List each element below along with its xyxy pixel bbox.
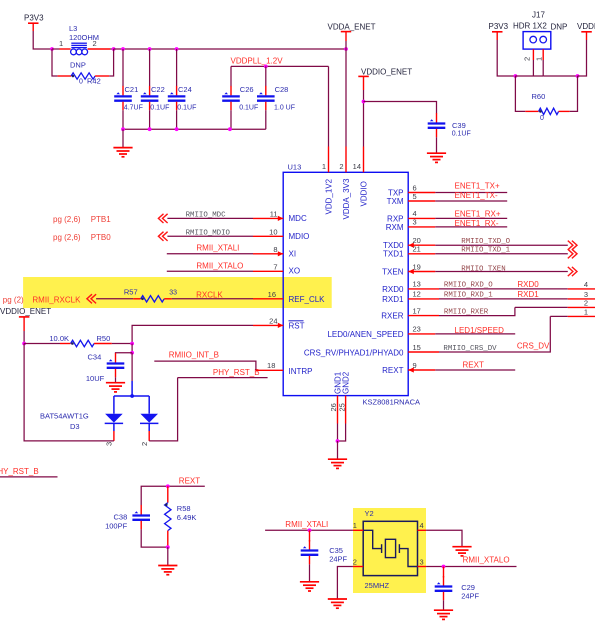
pin 6 stub [408, 192, 435, 194]
svg-text:VDDIO_ENET: VDDIO_ENET [361, 68, 412, 77]
wire row 1 (CRS_DV to edge) [550, 315, 567, 317]
svg-text:1.0 UF: 1.0 UF [274, 104, 295, 111]
svg-text:R58: R58 [177, 504, 191, 513]
svg-text:10: 10 [269, 227, 277, 236]
wire RMIIO_RXD_0 [439, 288, 568, 290]
svg-text:2: 2 [140, 442, 149, 446]
wire VDDIO_ENET down [23, 331, 25, 344]
wire RST net [132, 325, 253, 343]
svg-text:RMII_RXCLK: RMII_RXCLK [32, 295, 81, 304]
svg-text:GND2: GND2 [342, 371, 351, 394]
svg-text:23: 23 [413, 325, 421, 334]
svg-text:RXD1: RXD1 [517, 290, 539, 299]
wire to IC ground [337, 441, 339, 459]
wire R60 right riser [570, 76, 578, 111]
junction node C34 tap [130, 351, 134, 355]
off-page connector RMII_RXCLK [87, 294, 96, 303]
capacitor C26 0.1UF [222, 85, 258, 111]
wire J17 pin1 down [542, 60, 544, 76]
svg-text:REXT: REXT [179, 476, 200, 485]
svg-text:CRS_DV: CRS_DV [517, 342, 550, 351]
resistor R60 0 ohm [525, 92, 569, 122]
wire DNP loop right [109, 49, 113, 76]
junction node L3 pin2 [112, 47, 116, 51]
wire RMIIO_TXEN [435, 271, 568, 273]
pin 18 stub [256, 369, 283, 371]
wire RMIIO_TXD_1 [435, 253, 568, 255]
svg-text:INTRP: INTRP [289, 367, 313, 376]
highlight band REF_CLK net [23, 277, 332, 308]
capacitor C29 24PF [435, 576, 480, 601]
svg-text:pg (2,6): pg (2,6) [53, 233, 81, 242]
svg-text:3: 3 [420, 558, 424, 567]
pin 15 stub [408, 351, 439, 353]
svg-text:2: 2 [339, 162, 343, 171]
wire J17 pin2 row [515, 75, 543, 77]
svg-text:RMII_XTALI: RMII_XTALI [285, 520, 328, 529]
pin 4 stub (Y2) [418, 529, 427, 531]
pin 17 stub [408, 315, 439, 317]
junction node VDDIO C39 tap [362, 100, 366, 104]
wire GND2 down [338, 424, 346, 442]
wire ENET1_TX- [435, 200, 507, 202]
svg-text:C22: C22 [151, 85, 165, 94]
wire C29 branch [443, 567, 445, 578]
wire J17 pin2 down [532, 60, 534, 76]
wire VDDI to junction [578, 40, 587, 76]
svg-text:MDIO: MDIO [289, 232, 310, 241]
svg-text:VDDA_ENET: VDDA_ENET [328, 23, 376, 32]
junction node VDDA rail [344, 47, 348, 51]
wire C28 bottom [265, 110, 267, 129]
svg-text:U13: U13 [288, 163, 302, 172]
pin 19 stub [408, 269, 435, 274]
junction node gnd rail C26 [228, 127, 232, 131]
svg-text:RXD1: RXD1 [382, 295, 404, 304]
svg-text:4: 4 [584, 280, 588, 289]
svg-text:MDC: MDC [289, 214, 307, 223]
wire RMIIO_INT_B [154, 361, 256, 370]
svg-text:R50: R50 [97, 334, 111, 343]
wire to ground (REXT) [167, 547, 169, 565]
wire RMIIO_MDC [167, 217, 253, 219]
pin 5 stub [408, 200, 435, 202]
svg-text:J17: J17 [532, 11, 545, 20]
resistor R42 (DNP 0 ohm) [58, 61, 110, 86]
svg-text:VDDIO_ENET: VDDIO_ENET [0, 307, 51, 316]
capacitor C38 100PF [105, 505, 150, 531]
svg-text:21: 21 [413, 245, 421, 254]
pin 11 stub [253, 216, 283, 221]
resistor R50 10.0K [49, 334, 111, 347]
pin GND2 stub [345, 396, 347, 424]
svg-text:2: 2 [584, 299, 588, 308]
pin 2 stub [345, 147, 347, 173]
svg-text:L3: L3 [69, 24, 77, 33]
junction node C24 top [175, 47, 179, 51]
svg-text:PHY_RST_B: PHY_RST_B [213, 368, 260, 377]
ground (C29) [434, 610, 453, 619]
svg-text:ENET1_TX-: ENET1_TX- [455, 191, 498, 200]
wire C28 branch [265, 66, 267, 86]
wire RXCLK right [172, 298, 253, 300]
svg-text:2: 2 [353, 558, 357, 567]
svg-text:BAT54AWT1G: BAT54AWT1G [40, 412, 89, 421]
svg-text:3: 3 [413, 218, 417, 227]
svg-text:24: 24 [269, 316, 277, 325]
svg-text:RMII_XTALI: RMII_XTALI [196, 243, 239, 252]
capacitor C28 1.0UF [257, 85, 295, 111]
wire RST to C34 tap [131, 344, 133, 353]
svg-text:1: 1 [535, 57, 544, 61]
junction node R50 left [22, 342, 26, 346]
wire D3 anode2 to PHY_RST_B [149, 378, 177, 441]
wire PHY_RST_B (bottom left) [0, 476, 58, 478]
svg-text:0.1UF: 0.1UF [150, 104, 169, 111]
pin 8 stub [253, 251, 283, 256]
ground (IC GND pins) [328, 459, 347, 468]
wire RMIIO_CRS_DV [439, 316, 550, 352]
svg-text:XI: XI [289, 249, 297, 258]
wire L3 pin2 to junction [110, 48, 114, 50]
svg-text:7: 7 [273, 262, 277, 271]
svg-text:120OHM: 120OHM [69, 33, 99, 42]
svg-text:C38: C38 [114, 513, 128, 522]
op-amp U13 KSZ8081RNACA (PHY IC body) [283, 163, 420, 407]
wire C29 to ground [443, 600, 445, 610]
svg-text:C34: C34 [88, 353, 102, 362]
wire VDD_1V2 riser to pin 1 [328, 66, 330, 146]
inductor L3 (ferrite bead 120OHM) [52, 24, 110, 55]
wire DNP loop left [52, 49, 58, 76]
svg-text:DNP: DNP [70, 61, 86, 70]
junction node J17 pin2 / R60 [514, 74, 518, 78]
pin 23 stub [408, 333, 435, 335]
wire R50 right [112, 343, 132, 345]
pin 14 stub [363, 147, 365, 173]
svg-text:TXEN: TXEN [382, 267, 404, 276]
wire RMII_XTALO [167, 270, 253, 272]
wire C24 bottom [176, 110, 178, 129]
pin 2 stub (Y2) [353, 566, 363, 568]
svg-text:VDDPLL_1.2V: VDDPLL_1.2V [231, 57, 284, 66]
ground (REXT network) [158, 566, 177, 575]
svg-text:17: 17 [413, 306, 421, 315]
junction node GND pins [336, 439, 340, 443]
connector J17 HDR 1X2 [513, 11, 567, 62]
crystal Y2 25MHZ [363, 509, 417, 590]
svg-text:C26: C26 [240, 85, 254, 94]
svg-text:24PF: 24PF [329, 555, 347, 564]
svg-text:R42: R42 [87, 77, 101, 86]
svg-text:RMII_XTALO: RMII_XTALO [196, 261, 243, 270]
svg-text:REF_CLK: REF_CLK [289, 295, 326, 304]
svg-text:C24: C24 [178, 85, 192, 94]
svg-text:12: 12 [413, 290, 421, 299]
wire C35 to ground [309, 564, 311, 581]
svg-text:1: 1 [584, 308, 588, 317]
junction node C21 top [121, 47, 125, 51]
svg-text:pg (2): pg (2) [3, 295, 24, 304]
svg-text:DNP: DNP [551, 22, 568, 31]
svg-text:15: 15 [413, 343, 421, 352]
junction node gnd rail C21 [121, 127, 125, 131]
svg-text:10UF: 10UF [86, 374, 105, 383]
svg-text:1: 1 [322, 162, 326, 171]
svg-text:ENET1_TX+: ENET1_TX+ [455, 181, 500, 190]
svg-text:VDDA_3V3: VDDA_3V3 [342, 178, 351, 219]
svg-text:CRS_RV/PHYAD1/PHYAD0: CRS_RV/PHYAD1/PHYAD0 [304, 349, 404, 358]
svg-text:0: 0 [540, 115, 544, 122]
capacitor C35 24PF [301, 540, 348, 564]
svg-text:RXD0: RXD0 [382, 285, 404, 294]
svg-text:XO: XO [289, 267, 301, 276]
pin 9 stub [408, 367, 435, 372]
svg-text:VDDIO: VDDIO [360, 181, 369, 206]
svg-text:1: 1 [353, 521, 357, 530]
pin name RST (active low) [289, 321, 305, 331]
wire VDDIO_ENET to D3 anode [24, 344, 114, 441]
wire C24 branch [176, 49, 178, 86]
resistor R58 6.49K [165, 486, 197, 547]
wire 3V3 rail [114, 48, 346, 50]
power symbol P3V3 [24, 14, 44, 32]
pin 12 stub [408, 298, 439, 300]
svg-text:Y2: Y2 [365, 509, 374, 518]
power symbol VDDA_ENET [328, 23, 376, 42]
wire RMII_XTALO (crystal) [426, 566, 516, 568]
svg-text:HDR 1X2: HDR 1X2 [513, 22, 547, 31]
wire ENET1_RX+ [435, 217, 507, 219]
pin 16 stub [253, 298, 283, 300]
svg-text:TXM: TXM [387, 197, 404, 206]
svg-text:VDDI: VDDI [577, 22, 595, 31]
pin 7 stub [253, 270, 283, 272]
wire C21 bottom [122, 110, 124, 129]
wire VDDIO to pin 14 [363, 90, 365, 147]
svg-text:4.7UF: 4.7UF [124, 104, 143, 111]
pin 24 stub [253, 323, 283, 328]
wire P3V3 to rail [33, 31, 52, 49]
svg-text:0.1UF: 0.1UF [177, 104, 196, 111]
junction node C35 tap [308, 528, 312, 532]
wire C35 branch [309, 530, 311, 541]
wire R50 left [24, 343, 60, 345]
off-page connector RMIIO_TXEN [568, 267, 577, 276]
wire C22 bottom [149, 110, 151, 129]
wire R60 left riser [515, 76, 525, 111]
wire C26 branch [230, 66, 232, 86]
power symbol VDDIO_ENET [358, 68, 412, 90]
wire RMIIO_RXER [439, 307, 515, 315]
svg-text:16: 16 [268, 290, 276, 299]
pin GND1 stub [337, 396, 339, 424]
highlight box crystal Y2 [353, 508, 426, 593]
wire RXD1 to edge (connector stub) [568, 298, 595, 300]
svg-text:100PF: 100PF [105, 522, 128, 531]
svg-text:pg (2,6): pg (2,6) [53, 215, 81, 224]
svg-text:RST: RST [289, 321, 305, 330]
junction node RST/R50 [130, 342, 134, 346]
wire RXD0 to edge (connector stub) [568, 288, 595, 290]
ground (C35) [300, 582, 319, 591]
capacitor C21 4.7UF [114, 85, 143, 111]
svg-text:VDD_1V2: VDD_1V2 [325, 178, 334, 214]
ground (filter caps) [113, 148, 132, 157]
svg-text:RXER: RXER [381, 312, 403, 321]
svg-text:25: 25 [337, 403, 346, 411]
wire C34 branch [116, 352, 133, 355]
svg-text:33: 33 [169, 290, 177, 297]
wire ENET1_RX- [435, 226, 507, 228]
svg-text:9: 9 [413, 361, 417, 370]
wire P3V3 to J17 pin2 net [497, 40, 515, 76]
wire RMIIO_TXD_0 [435, 244, 568, 246]
resistor R57 33 ohm [124, 288, 177, 302]
svg-text:25MHZ: 25MHZ [365, 581, 390, 590]
capacitor C24 0.1UF [168, 85, 197, 111]
svg-text:11: 11 [270, 209, 278, 218]
off-page connector RMIIO_MDC [158, 214, 167, 223]
svg-text:RMII_XTALO: RMII_XTALO [463, 555, 510, 564]
svg-text:8: 8 [273, 245, 277, 254]
wire J17 pin1 row [543, 75, 577, 77]
capacitor C39 0.1UF [428, 113, 471, 137]
wire LED1/SPEED [435, 333, 515, 335]
ground (C39) [427, 153, 446, 162]
svg-text:REXT: REXT [463, 360, 484, 369]
source annotation pg (2,6) PTB0 [53, 233, 111, 242]
wire VDDA_ENET to pin 2 [345, 41, 347, 147]
svg-text:P3V3: P3V3 [489, 22, 509, 31]
wire RMIIO_RXD_1 [439, 298, 568, 300]
pin 21 stub [408, 253, 435, 255]
svg-text:5: 5 [413, 192, 417, 201]
junction node gnd rail C22 [148, 127, 152, 131]
svg-text:0: 0 [79, 79, 83, 86]
svg-text:3: 3 [105, 442, 114, 446]
svg-text:4: 4 [420, 521, 424, 530]
capacitor C22 0.1UF [141, 85, 170, 111]
wire C26 bottom [230, 110, 232, 129]
wire GND1 down [337, 424, 339, 442]
wire row 2 (RXER to edge) [515, 306, 568, 308]
wire RMIIO_MDIO [167, 235, 253, 237]
junction node L3 pin1 [50, 47, 54, 51]
wire REXT top [141, 486, 205, 505]
wire to ground under C21 [122, 129, 124, 147]
svg-text:R57: R57 [124, 288, 138, 297]
wire ENET1_TX+ [435, 192, 507, 194]
wire VDDPLL rail [231, 65, 329, 67]
pin 13 stub [408, 288, 439, 290]
pin 10 stub [253, 235, 283, 237]
svg-text:TXD1: TXD1 [383, 250, 404, 259]
pin 1 stub [328, 147, 330, 173]
wire Y2 pin4 to ground [426, 530, 462, 546]
svg-text:0.1UF: 0.1UF [239, 104, 258, 111]
svg-text:RXD0: RXD0 [517, 280, 539, 289]
junction node R58 bottom [166, 545, 170, 549]
svg-text:PHY_RST_B: PHY_RST_B [0, 467, 39, 476]
svg-text:0.1UF: 0.1UF [452, 130, 471, 137]
source annotation pg (2,6) PTB1 [53, 215, 111, 224]
wire C39 to ground [436, 137, 438, 153]
wire REXT (pin 9) [435, 369, 515, 371]
svg-text:C28: C28 [275, 85, 289, 94]
pin 3 stub (Y2) [418, 566, 427, 568]
svg-text:13: 13 [413, 280, 421, 289]
svg-text:6.49K: 6.49K [177, 513, 197, 522]
svg-text:D3: D3 [70, 422, 80, 431]
svg-text:1: 1 [59, 39, 63, 48]
svg-text:18: 18 [267, 361, 275, 370]
diode D3 BAT54AWT1G (dual) [40, 381, 158, 446]
svg-text:R60: R60 [532, 92, 546, 101]
svg-text:RXCLK: RXCLK [196, 290, 223, 299]
svg-text:C21: C21 [125, 85, 139, 94]
junction node C29 tap [442, 565, 446, 569]
junction node J17 pin1 / R60 [576, 74, 580, 78]
wire PHY_RST_B [178, 377, 268, 379]
off-page connector RMIIO_MDIO [158, 232, 167, 241]
pin 4 stub [408, 217, 435, 219]
wire C38 bottom [141, 529, 168, 547]
svg-text:RMIIO_INT_B: RMIIO_INT_B [169, 351, 219, 360]
wire C34 to ground [115, 377, 117, 382]
svg-text:C39: C39 [452, 121, 466, 130]
svg-text:P3V3: P3V3 [24, 14, 44, 23]
capacitor C34 10UF [86, 353, 124, 383]
wire ground rail under caps [123, 128, 266, 130]
wire RMII_XTALI (crystal) [265, 529, 353, 531]
svg-text:LED0/ANEN_SPEED: LED0/ANEN_SPEED [327, 330, 403, 339]
pin 20 stub [408, 243, 435, 248]
svg-text:2: 2 [523, 57, 532, 61]
ground (Y2 pin2) [328, 599, 347, 608]
svg-text:10.0K: 10.0K [49, 334, 69, 343]
power symbol P3V3 (J17) [489, 22, 509, 40]
svg-text:24PF: 24PF [461, 592, 479, 601]
svg-text:14: 14 [353, 162, 361, 171]
power symbol VDDIO_ENET (J17 right, clipped) [577, 22, 595, 40]
junction node gnd rail C24 [175, 127, 179, 131]
svg-text:KSZ8081RNACA: KSZ8081RNACA [363, 398, 421, 407]
pin 1 stub (Y2) [353, 529, 363, 531]
junction node REXT [166, 484, 170, 488]
wire RMII_XTALI [167, 253, 253, 255]
wire Y2 pin2 to ground [337, 567, 353, 599]
off-page connector RMIIO_TXD_1 [568, 249, 577, 258]
svg-text:ENET1_RX+: ENET1_RX+ [455, 209, 501, 218]
junction node C28 top [264, 65, 268, 69]
svg-text:PTB1: PTB1 [91, 215, 112, 224]
ground (Y2 pin4) [452, 547, 471, 556]
ground (C34) [106, 383, 125, 392]
svg-text:REXT: REXT [382, 366, 403, 375]
off-page connector RMIIO_TXD_0 [568, 241, 577, 250]
svg-text:19: 19 [413, 262, 421, 271]
pin 3 stub [408, 226, 435, 228]
svg-text:PTB0: PTB0 [91, 233, 112, 242]
power symbol VDDIO_ENET (left) [0, 307, 51, 331]
wire RST down to D3 [131, 353, 133, 381]
wire RXCLK left [96, 298, 133, 300]
svg-text:RXM: RXM [386, 223, 404, 232]
junction node C22 top [148, 47, 152, 51]
wire VDDIO to C39 [364, 102, 437, 114]
wire C21 branch [122, 49, 124, 86]
